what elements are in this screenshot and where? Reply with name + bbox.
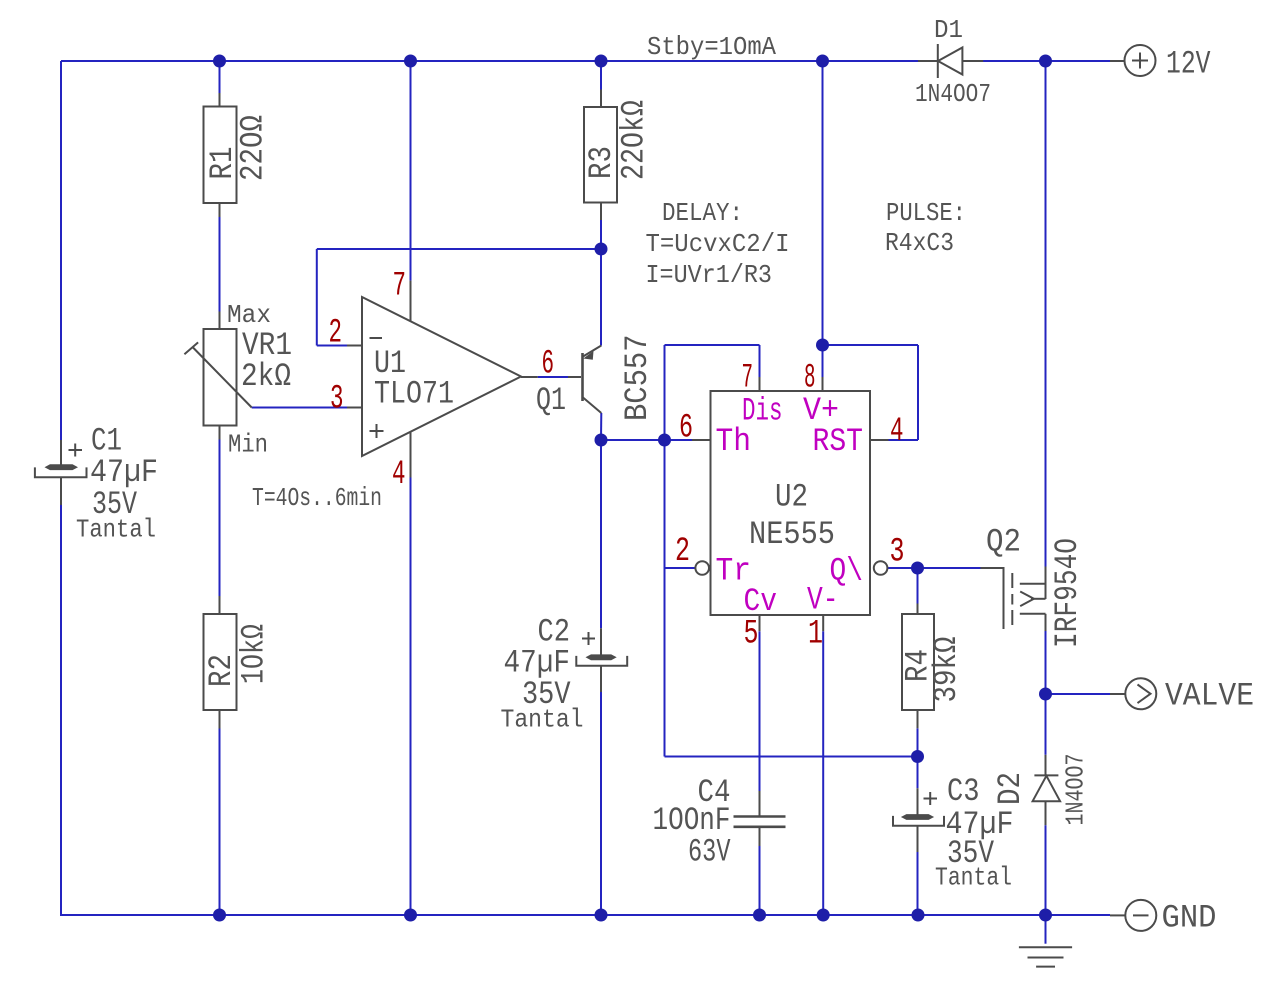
op-amp U1 output lead: [521, 376, 538, 378]
supply symbol VALVE circle: [1125, 678, 1156, 709]
svg-text:R4xC3: R4xC3: [885, 228, 954, 258]
supply symbol VALVE stub: [1110, 693, 1125, 695]
svg-text:1N4OO7: 1N4OO7: [1061, 754, 1091, 826]
wire Q2 drain to VALVE node: [1045, 631, 1047, 694]
svg-text:C3: C3: [947, 773, 980, 810]
ground symbol: [1019, 946, 1072, 948]
junction 555 V+ rail: [816, 55, 829, 68]
svg-text:Q2: Q2: [986, 524, 1021, 561]
mosfet Q2 gate lead: [981, 567, 1004, 569]
capacitor C3 leads: [917, 788, 919, 814]
junction 555 V- GND: [817, 909, 830, 922]
svg-text:Th: Th: [716, 423, 752, 460]
svg-text:2kΩ: 2kΩ: [241, 358, 291, 395]
wire V+ node to RST loop: [823, 344, 919, 346]
diode D1 triangle: [938, 48, 962, 75]
resistor R2 leads: [219, 596, 221, 614]
resistor R3 leads: [600, 90, 602, 108]
wire D2 to GND rail: [1045, 825, 1047, 915]
junction V+ / RST loop: [816, 339, 829, 352]
wire Tr pin horizontal: [665, 567, 695, 569]
svg-text:T=UcvxC2/I: T=UcvxC2/I: [646, 229, 790, 259]
junction R3/+12V: [595, 55, 608, 68]
diode D2 triangle: [1033, 776, 1061, 801]
mosfet Q2 channel dashes: [1011, 573, 1013, 588]
potentiometer VR1 leads: [219, 312, 221, 330]
svg-text:5: 5: [744, 616, 759, 654]
junction R1/+12V: [213, 55, 226, 68]
mosfet Q2 drain plate: [1020, 613, 1046, 615]
svg-text:2: 2: [329, 315, 343, 353]
svg-text:22OΩ: 22OΩ: [235, 115, 272, 181]
transistor Q1 base bar: [581, 353, 584, 401]
mosfet Q2 gate plate: [1003, 567, 1005, 629]
svg-text:RST: RST: [813, 423, 864, 460]
transistor Q1 emitter: [583, 346, 601, 357]
svg-text:3: 3: [330, 381, 344, 419]
wire Q\ node to R4: [917, 568, 919, 604]
IC U2 body: [711, 391, 871, 615]
svg-text:4: 4: [392, 456, 406, 494]
mosfet Q2 substrate arrow: [1020, 592, 1034, 599]
junction C4 GND: [753, 909, 766, 922]
svg-text:I=UVr1/R3: I=UVr1/R3: [646, 260, 773, 290]
wire R3 to Q1 emitter: [600, 220, 602, 346]
wire R1 top: [219, 61, 221, 93]
svg-text:3: 3: [890, 534, 905, 572]
svg-text:63V: 63V: [688, 834, 731, 871]
diode D2 cathode bar: [1034, 774, 1058, 776]
wire RST loop vertical: [917, 345, 919, 440]
wire Cv pin to C4: [759, 631, 761, 791]
capacitor C2 negative plate: [576, 656, 627, 666]
capacitor C1 plus sign: [69, 449, 83, 451]
diode D1 leads: [918, 60, 938, 62]
supply symbol +12V stub: [1110, 60, 1125, 62]
svg-text:2: 2: [675, 533, 690, 571]
svg-text:Cv: Cv: [744, 583, 778, 620]
transistor Q1 collector: [583, 398, 601, 414]
junction U1 pin7 rail: [404, 55, 417, 68]
wire Dis loop horizontal: [665, 344, 760, 346]
op-amp U1 minus sign: [370, 337, 383, 339]
svg-text:12V: 12V: [1166, 46, 1211, 83]
junction VALVE node: [1039, 688, 1052, 701]
wire R1 to VR1: [219, 217, 221, 312]
svg-text:U2: U2: [775, 479, 808, 516]
wire +12V top rail: [61, 60, 918, 62]
mosfet Q2 drain stub: [1045, 614, 1047, 631]
junction right rail +12V: [1039, 55, 1052, 68]
wire V+ rail drop: [822, 61, 824, 377]
wire U1 pin2 horizontal: [317, 345, 347, 347]
capacitor C3 positive plate: [901, 814, 934, 820]
wire RST pin lead: [889, 439, 919, 441]
svg-text:DELAY:: DELAY:: [662, 198, 743, 228]
svg-text:1: 1: [808, 616, 823, 654]
wire node A to 555 Th: [601, 439, 692, 441]
svg-text:NE555: NE555: [749, 516, 835, 553]
svg-text:R3: R3: [583, 146, 620, 179]
svg-text:T=4Os..6min: T=4Os..6min: [252, 483, 382, 513]
svg-text:TLO71: TLO71: [374, 376, 454, 413]
wire bottom rail to GND symbol: [1046, 914, 1111, 916]
junction D2/GND rail: [1039, 909, 1052, 922]
wire U1 pin2 feedback vertical: [316, 249, 318, 346]
wire Q1 collector down: [600, 413, 602, 440]
svg-text:4: 4: [890, 413, 904, 451]
wire R4 bottom to node: [917, 728, 919, 756]
resistor R4 body: [902, 614, 934, 710]
wire VR1 to R2: [219, 440, 221, 597]
wire node A to C2: [600, 440, 602, 628]
svg-text:1N4OO7: 1N4OO7: [915, 79, 991, 109]
IC U2 pin8 V+ lead: [822, 377, 824, 391]
svg-text:1OkΩ: 1OkΩ: [236, 624, 273, 684]
svg-text:Max: Max: [227, 300, 271, 330]
diode D2 leads: [1045, 755, 1047, 776]
capacitor C4 plates: [734, 815, 786, 818]
transistor Q1 base lead: [568, 376, 581, 378]
resistor R3 body: [584, 107, 617, 203]
wire C2 bottom: [600, 692, 602, 915]
junction U1 pin4 GND: [404, 909, 417, 922]
wire node to C3: [917, 757, 919, 789]
resistor R1 leads: [219, 93, 221, 107]
potentiometer VR1 body: [204, 329, 237, 426]
potentiometer VR1 wiper arrow: [193, 348, 252, 408]
svg-text:V-: V-: [807, 582, 839, 619]
svg-text:Stby=1OmA: Stby=1OmA: [647, 32, 776, 62]
transistor Q1 emitter arrow: [583, 351, 593, 360]
capacitor C2 positive plate: [586, 654, 617, 660]
svg-text:39kΩ: 39kΩ: [928, 637, 965, 703]
junction Th/Tr net: [658, 434, 671, 447]
svg-text:6: 6: [542, 346, 555, 384]
wire C3 bottom: [917, 852, 919, 915]
svg-text:VALVE: VALVE: [1165, 678, 1254, 715]
junction R4/C3/Tr loop: [911, 750, 924, 763]
svg-text:R2: R2: [203, 654, 240, 687]
mosfet Q2 source plate: [1020, 583, 1046, 585]
junction R3 bottom / feedback: [595, 243, 608, 256]
junction C2 GND: [595, 909, 608, 922]
diode D1 cathode bar: [937, 44, 939, 78]
wire U1 pin4 to GND rail: [410, 478, 412, 916]
wire V- pin to GND rail: [822, 631, 824, 915]
svg-text:22OkΩ: 22OkΩ: [616, 100, 653, 180]
mosfet Q2 source bus: [1045, 567, 1047, 600]
junction R2 GND: [213, 909, 226, 922]
wire Tr bottom loop: [665, 756, 918, 758]
wire VALVE node horizontal: [1046, 693, 1111, 695]
mosfet Q2 substrate line: [1031, 598, 1046, 600]
svg-text:GND: GND: [1162, 900, 1217, 937]
supply symbol GND stub: [1110, 914, 1125, 916]
capacitor C4 leads: [759, 791, 761, 816]
capacitor C3 plus sign: [924, 798, 938, 800]
svg-text:D2: D2: [992, 772, 1029, 805]
svg-text:8: 8: [804, 360, 816, 398]
wire top rail D1 to 12V: [983, 60, 1110, 62]
wire Q\ node to Q2 gate: [918, 567, 981, 569]
wire C4 bottom: [759, 846, 761, 915]
svg-text:6: 6: [679, 410, 693, 448]
supply symbol VALVE chevron: [1138, 685, 1151, 704]
resistor R4 leads: [917, 604, 919, 615]
svg-text:Tantal: Tantal: [935, 863, 1012, 893]
junction node A (C2/Th/Q1): [595, 434, 608, 447]
wire U1 pin7 supply: [410, 61, 412, 281]
op-amp U1 plus sign: [370, 430, 384, 432]
wire VR1 wiper to U1 pin3: [252, 407, 347, 409]
supply symbol GND circle: [1125, 900, 1156, 931]
svg-text:BC557: BC557: [619, 335, 656, 422]
capacitor C3 negative plate: [893, 816, 944, 826]
op-amp U1 pin3 lead: [347, 407, 362, 409]
svg-text:PULSE:: PULSE:: [886, 198, 966, 228]
svg-text:D1: D1: [934, 15, 963, 45]
capacitor C2 leads: [600, 628, 602, 654]
wire Dis pin drop: [759, 345, 761, 377]
svg-text:Tantal: Tantal: [76, 515, 156, 545]
wire Q\ output to node: [888, 567, 918, 569]
svg-text:Tantal: Tantal: [501, 705, 584, 735]
op-amp U1 triangle: [362, 297, 521, 456]
wire U1 out to Q1 base: [538, 376, 568, 378]
capacitor C1 positive plate: [45, 464, 79, 470]
IC U2 pin1 V- lead: [822, 615, 824, 631]
IC U2 pin2 Tr bubble: [695, 561, 709, 575]
IC U2 pin3 Q\ bubble: [874, 561, 888, 575]
svg-text:Min: Min: [228, 430, 268, 460]
svg-text:7: 7: [393, 268, 407, 306]
wire R3 top: [600, 61, 602, 90]
op-amp U1 pin2 lead: [347, 345, 362, 347]
resistor R1 body: [204, 107, 237, 204]
capacitor C2 plus sign: [582, 638, 595, 640]
wire right rail 12V to Q2 source: [1045, 61, 1047, 567]
junction C3 GND: [912, 909, 925, 922]
op-amp U1 pin7 lead: [410, 281, 412, 322]
supply symbol +12V circle: [1125, 45, 1156, 76]
IC U2 pin7 Dis lead: [759, 377, 761, 391]
svg-text:7: 7: [742, 360, 754, 398]
IC U2 pin4 RST lead: [870, 439, 889, 441]
supply symbol +12V plus: [1132, 60, 1148, 62]
IC U2 pin6 Th lead: [692, 439, 711, 441]
wire left rail lower: [60, 505, 62, 916]
IC U2 pin5 Cv lead: [759, 615, 761, 631]
resistor R2 body: [204, 614, 237, 710]
supply symbol GND minus: [1133, 914, 1149, 916]
capacitor C1 leads: [60, 440, 62, 465]
wire Th node vertical: [664, 345, 666, 757]
wire GND symbol stub: [1045, 915, 1047, 944]
wire left rail upper: [60, 61, 62, 440]
junction Q\/R4/gate: [911, 562, 924, 575]
svg-text:IRF954O: IRF954O: [1049, 538, 1086, 648]
capacitor C1 negative plate: [35, 467, 87, 477]
wire VALVE node to D2: [1045, 694, 1047, 755]
wire feedback to R3 node: [317, 248, 601, 250]
wire GND bottom rail: [60, 914, 1046, 916]
op-amp U1 pin4 lead: [410, 432, 412, 478]
wire R2 bottom: [219, 729, 221, 916]
svg-text:Q1: Q1: [536, 382, 566, 419]
